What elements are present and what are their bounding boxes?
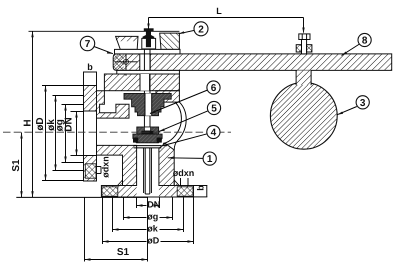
svg-text:7: 7: [85, 39, 91, 50]
bracket right block 2: [160, 33, 180, 49]
dimension S1 left: [11, 133, 23, 198]
dimension DN left: [64, 112, 84, 156]
body left wall and floor: [97, 91, 130, 118]
svg-text:8: 8: [362, 36, 368, 47]
dimension og left: [54, 105, 84, 163]
neck fillet left: [118, 180, 123, 186]
svg-text:H: H: [23, 119, 34, 126]
svg-text:øk: øk: [147, 224, 158, 234]
bracket left block: [116, 36, 138, 49]
bottom dimension ok: [113, 198, 184, 234]
svg-text:4: 4: [211, 128, 217, 139]
dimension oD left: [35, 86, 84, 181]
dimension H: [23, 31, 34, 197]
bottom dimension S1: [85, 198, 148, 262]
svg-text:DN: DN: [64, 117, 75, 131]
balloon 7: [80, 36, 113, 53]
stem upper: [144, 49, 150, 93]
svg-text:S1: S1: [11, 159, 22, 172]
svg-text:DN: DN: [147, 199, 160, 209]
svg-text:L: L: [216, 6, 222, 16]
bracket base plate: [115, 49, 181, 54]
stem gland: [142, 38, 156, 49]
balloon 5: [159, 101, 221, 131]
svg-text:b: b: [196, 185, 206, 191]
svg-text:2: 2: [198, 24, 204, 35]
balloon 1: [168, 152, 217, 165]
body lower-left wall and neck left column: [97, 145, 137, 185]
side flange bolt hole: [85, 164, 96, 178]
neck fillet right: [174, 180, 179, 186]
svg-text:øg: øg: [147, 212, 158, 222]
bottom flange bolt hole left: [102, 187, 118, 196]
body bell outer curve: [174, 102, 186, 150]
dimension b bottom right: [194, 185, 208, 197]
stem mid: [144, 116, 150, 127]
balloon 3: [337, 96, 369, 115]
packing gland 5: [137, 127, 159, 134]
bonnet boss under bar: [117, 70, 180, 74]
bottom dimension oD: [103, 198, 194, 246]
pivot pin 7 centermark: [115, 48, 138, 76]
bonnet right step: [156, 91, 179, 102]
svg-text:øD: øD: [147, 236, 159, 246]
balloon 4: [162, 125, 220, 146]
dimension L: [147, 6, 304, 34]
seat lip lines: [134, 146, 162, 148]
side flange: [84, 72, 97, 181]
odxn label left: [97, 156, 111, 178]
svg-text:S1: S1: [117, 247, 130, 258]
diaphragm stack 6: [124, 93, 171, 115]
svg-text:ødxn: ødxn: [173, 168, 195, 178]
stem stud: [146, 31, 151, 35]
svg-text:6: 6: [211, 83, 217, 94]
stem tube lower: [144, 148, 152, 194]
bracket top line / H extension: [29, 30, 180, 32]
horizontal centerline: [3, 131, 231, 133]
lever bar 8: [113, 54, 392, 71]
balloon 6: [150, 81, 220, 114]
bottom flange bolt hole right: [177, 187, 193, 196]
float rod bolt: [296, 34, 312, 54]
svg-text:b: b: [87, 62, 93, 72]
balloon 2: [179, 22, 209, 36]
stem cap: [144, 28, 154, 31]
bottom flange: [101, 186, 193, 198]
float ball 3: [270, 82, 337, 149]
bottom dimension og: [124, 198, 173, 222]
neck right column: [159, 143, 174, 185]
balloon 8: [342, 33, 372, 55]
bottom dimension DN: [137, 198, 161, 210]
bottom face extension: [16, 196, 148, 198]
svg-text:1: 1: [207, 154, 213, 165]
dimension b top: [87, 62, 93, 72]
float neck: [296, 70, 311, 85]
bar slot for stem: [140, 54, 150, 71]
svg-text:5: 5: [211, 104, 217, 115]
bonnet plate: [104, 74, 179, 91]
odxn label bottom: [173, 168, 195, 186]
dimension ok left: [46, 96, 84, 171]
body bell inner curve: [163, 102, 181, 143]
svg-text:3: 3: [360, 98, 366, 109]
svg-text:øD: øD: [35, 117, 46, 130]
stem nut: [143, 35, 155, 38]
seat 4: [133, 134, 162, 143]
svg-text:ødxn: ødxn: [101, 156, 111, 178]
